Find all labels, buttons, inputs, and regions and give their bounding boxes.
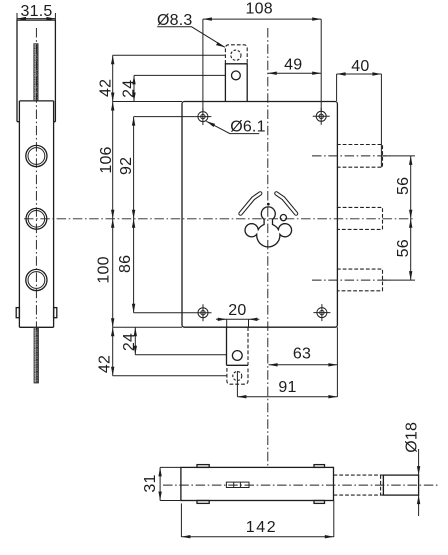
keyhole right slot xyxy=(276,193,296,213)
body top edge extension left xyxy=(113,101,182,103)
faceplate main plate xyxy=(19,100,53,102)
hatched rod bottom xyxy=(34,327,39,383)
bolt 2 xyxy=(337,207,383,229)
faceplate right tab xyxy=(54,308,57,318)
bolt 1 xyxy=(337,145,383,168)
keyhole gourd xyxy=(245,207,292,247)
hole BR xyxy=(313,304,330,321)
bottom view keyhole slot xyxy=(226,482,249,487)
bottom tab solid hole xyxy=(232,351,242,361)
faceplate left tab xyxy=(16,308,19,318)
bottom view tab bottom-left xyxy=(197,501,209,504)
svg-text:Ø6.1: Ø6.1 xyxy=(230,119,266,136)
body outline xyxy=(182,102,337,328)
faceplate circle 2 xyxy=(26,208,47,229)
faceplate top box xyxy=(17,20,55,122)
top tab dashed hole xyxy=(231,50,241,60)
keyhole dot xyxy=(267,203,270,206)
svg-text:20: 20 xyxy=(228,302,246,319)
svg-text:Ø18: Ø18 xyxy=(404,422,421,453)
main horizontal centerline xyxy=(24,218,415,220)
bottom tab solid part xyxy=(226,327,228,365)
svg-text:142: 142 xyxy=(246,519,278,536)
hole TR xyxy=(313,108,330,125)
bolt 1 centerline xyxy=(312,155,390,157)
svg-text:91: 91 xyxy=(278,379,296,396)
dim 31.5 line xyxy=(17,18,55,20)
bottom view centerline xyxy=(163,484,440,486)
svg-text:108: 108 xyxy=(246,0,273,17)
svg-text:42: 42 xyxy=(97,355,114,373)
hatched rod top xyxy=(34,44,38,101)
top tab solid hole xyxy=(232,71,241,80)
body bottom edge extension left xyxy=(113,326,182,328)
bolt 3 xyxy=(337,269,383,291)
svg-text:40: 40 xyxy=(351,58,369,75)
bolt 3 centerline xyxy=(312,279,390,281)
bottom view body xyxy=(181,467,334,500)
bottom view tab bottom-right xyxy=(314,501,325,504)
svg-text:56: 56 xyxy=(395,239,412,257)
svg-text:49: 49 xyxy=(284,56,302,73)
keyhole small circle xyxy=(280,215,286,221)
faceplate circle 1 xyxy=(26,145,47,166)
top tab solid part xyxy=(225,64,247,102)
svg-text:63: 63 xyxy=(293,346,311,363)
bottom view tab top-right xyxy=(314,465,325,468)
svg-text:92: 92 xyxy=(118,157,135,175)
faceplate vertical centerline xyxy=(35,28,37,330)
svg-text:100: 100 xyxy=(96,256,113,283)
hole BL xyxy=(195,304,212,321)
main vertical centerline xyxy=(267,28,269,467)
svg-text:31: 31 xyxy=(142,474,159,492)
keyhole left slot xyxy=(241,193,261,213)
hole TL xyxy=(194,108,211,125)
faceplate circle 3 xyxy=(26,269,47,290)
top tab dashed part xyxy=(225,45,247,64)
svg-text:56: 56 xyxy=(395,177,412,195)
bottom view tab top-left xyxy=(197,465,209,468)
cylinder solid part xyxy=(383,475,418,495)
bottom tab dashed hole xyxy=(233,372,242,381)
cylinder hidden part xyxy=(334,474,384,476)
bottom tab dashed part xyxy=(227,368,248,384)
svg-text:86: 86 xyxy=(117,255,134,273)
